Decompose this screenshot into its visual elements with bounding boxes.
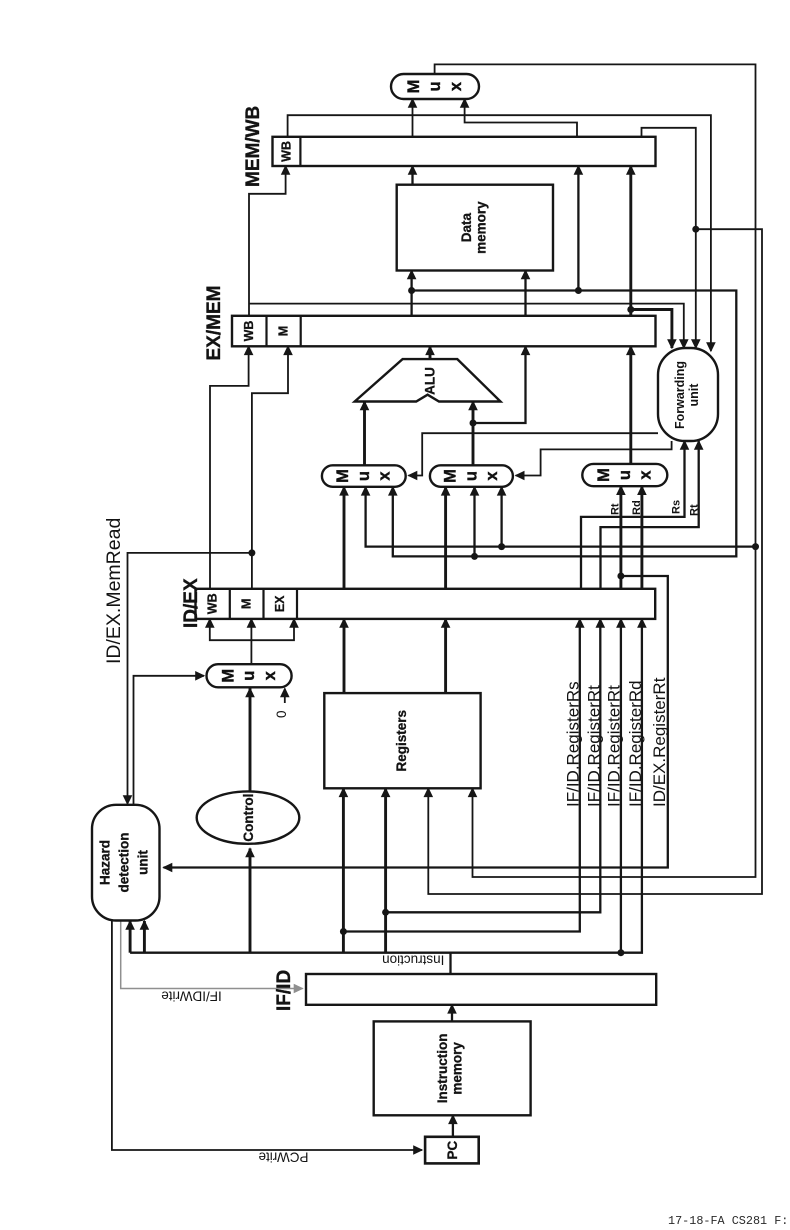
junction EX/MEM RegisterRd xyxy=(627,306,634,313)
wire: Registers read data 1 to ID/EX xyxy=(343,619,346,693)
wire: PC to Instruction memory xyxy=(452,1115,454,1137)
wire: mux A output to ALU input 1 xyxy=(363,402,366,466)
svg-text:0: 0 xyxy=(274,710,289,718)
svg-text:M: M xyxy=(334,469,352,483)
svg-text:17-18-FA CS281 F:: 17-18-FA CS281 F: xyxy=(668,1214,788,1228)
wire: IF/ID.RegisterRt line 2 to ID/EX xyxy=(620,619,622,953)
svg-text:x: x xyxy=(376,471,394,481)
wire: ID/EX.WB control to EX/MEM.WB xyxy=(210,346,249,589)
Data memory block xyxy=(397,185,553,271)
wire: ID/EX.MemRead to hazard detection unit xyxy=(128,553,252,804)
svg-text:Instructionmemory: Instructionmemory xyxy=(435,1034,465,1104)
svg-text:IF/ID.RegisterRt: IF/ID.RegisterRt xyxy=(605,685,624,807)
wire: ID/EX read data 2 to mux B input 1 xyxy=(444,487,447,589)
wire: mux B output to ALU input 2 xyxy=(472,402,475,466)
wire: Data memory read data to MEM/WB xyxy=(411,166,413,185)
wire: writeback value forward line to mux A input 2 xyxy=(366,487,756,547)
wire: IF/ID instruction out to bus xyxy=(449,953,451,974)
Instruction memory block xyxy=(374,1021,531,1115)
pipeline register MEM/WB xyxy=(273,137,656,166)
svg-text:Rs: Rs xyxy=(670,500,682,514)
wire: EX/MEM RegWrite to forwarding unit xyxy=(249,304,684,348)
wire: MEM/WB ALU result to writeback mux input 2 xyxy=(465,99,577,137)
pipeline register EX/MEM xyxy=(232,316,656,347)
wire: ID/EX.RegisterRs to forwarding unit xyxy=(581,441,685,589)
junction mux B input 3 xyxy=(498,543,505,550)
PC block xyxy=(425,1137,479,1164)
wire: ID/EX Rd to mux C input 2 xyxy=(640,486,643,589)
svg-text:u: u xyxy=(240,671,258,681)
wire: writeback mux output loop to Registers write data xyxy=(435,64,756,877)
svg-text:EX/MEM: EX/MEM xyxy=(204,286,225,361)
svg-text:ALU: ALU xyxy=(422,367,437,395)
ALU trapezoid xyxy=(355,359,501,401)
wire: EX/MEM ALU result forward line to mux A input 3 xyxy=(393,291,737,557)
svg-text:x: x xyxy=(261,670,279,680)
wire: writeback value forward branch to mux B input 3 xyxy=(500,487,502,547)
wire: ALU output to EX/MEM xyxy=(429,346,432,359)
svg-text:x: x xyxy=(483,471,501,481)
wire: MEM/WB.WB RegWrite to forwarding unit xyxy=(288,115,711,351)
wire: MEM/WB.RegisterRd to forwarding unit xyxy=(642,128,696,348)
wire: IF/ID.RegisterRs line to ID/EX xyxy=(343,619,579,932)
svg-text:IF/ID: IF/ID xyxy=(274,970,295,1011)
pipeline register ID/EX xyxy=(196,589,656,619)
Control oval xyxy=(197,791,300,843)
svg-text:IF/ID.RegisterRs: IF/ID.RegisterRs xyxy=(564,681,583,807)
wire: ID/EX.M control to EX/MEM.M xyxy=(252,346,288,589)
mux C register destination mux xyxy=(582,464,667,486)
wire: instruction Rs to Registers read register 1 xyxy=(342,788,345,952)
junction ALU result into MEM/WB xyxy=(575,287,582,294)
forwarding unit block xyxy=(658,348,718,441)
wire: ALU result forward branch to mux B input 2 xyxy=(473,487,475,557)
hazard detection unit block xyxy=(92,805,160,921)
wire: ID/EX.RegisterRt to forwarding unit xyxy=(601,441,699,589)
svg-text:Rd: Rd xyxy=(631,500,643,515)
wire: EX/MEM store data to Data memory write data xyxy=(524,271,526,316)
svg-text:u: u xyxy=(355,471,373,481)
svg-text:u: u xyxy=(462,471,480,481)
wire: control mux output to ID/EX WB xyxy=(210,619,252,664)
wire: forwarding unit select ForwardB to mux B xyxy=(516,441,672,476)
svg-text:PC: PC xyxy=(445,1140,460,1159)
junction instruction Rt xyxy=(382,909,389,916)
svg-text:M: M xyxy=(595,468,613,482)
junction instruction bus Rt xyxy=(617,949,624,956)
wire: control mux output to ID/EX M xyxy=(250,619,252,640)
wire: instruction bus xyxy=(130,619,642,953)
svg-text:WB: WB xyxy=(280,141,294,162)
svg-text:ID/EX.MemRead: ID/EX.MemRead xyxy=(103,518,125,664)
wire: EX/MEM.WB to MEM/WB.WB xyxy=(249,166,286,316)
wire: IF/IDWrite from hazard detection unit to IF/ID xyxy=(121,919,303,989)
wire: EX/MEM.RegisterRd up to MEM/WB xyxy=(629,166,632,316)
wire: ID/EX.RegisterRt down to hazard detection unit xyxy=(164,576,668,868)
svg-text:ID/EX: ID/EX xyxy=(181,578,202,628)
pipeline register IF/ID xyxy=(306,974,656,1005)
wire: EX/MEM ALU result to Data memory address xyxy=(410,271,412,316)
wire: MEM/WB.RegisterRd branch to Registers write register xyxy=(428,229,762,894)
svg-text:M: M xyxy=(277,326,291,336)
wire: Control output to control mux xyxy=(249,689,252,792)
junction instruction Rs xyxy=(340,928,347,935)
wire: Registers read data 2 to ID/EX xyxy=(444,619,447,693)
svg-text:PCWrite: PCWrite xyxy=(258,1150,308,1165)
junction mux B output xyxy=(470,420,477,427)
svg-text:u: u xyxy=(616,470,634,480)
svg-text:M: M xyxy=(405,80,423,94)
wire: mux B output branch to EX/MEM store data xyxy=(473,346,526,423)
svg-text:x: x xyxy=(447,81,465,91)
wire: hazard detection stall select to control mux xyxy=(134,676,205,805)
svg-text:WB: WB xyxy=(242,321,256,342)
mux writeback mux xyxy=(391,74,479,99)
svg-text:Rt: Rt xyxy=(689,504,701,516)
junction ID/EX RegisterRt xyxy=(617,573,624,580)
svg-text:Instruction: Instruction xyxy=(382,952,444,967)
svg-text:IF/IDWrite: IF/IDWrite xyxy=(161,989,222,1004)
wire: Instruction memory output to IF/ID xyxy=(451,1005,453,1022)
wire: instruction Rt to Registers read register 2 xyxy=(384,788,387,952)
svg-text:Rt: Rt xyxy=(610,503,622,515)
junction mux B input 2 xyxy=(471,553,478,560)
mux B forward mux B xyxy=(430,465,513,487)
svg-text:Registers: Registers xyxy=(394,710,409,772)
junction ID/EX.MemRead xyxy=(248,549,255,556)
svg-text:WB: WB xyxy=(206,593,220,614)
mux A forward mux A xyxy=(322,465,406,487)
junction writeback value line xyxy=(752,543,759,550)
wire: MEM/WB read data to writeback mux input 1 xyxy=(412,99,414,137)
Registers block xyxy=(324,693,480,788)
svg-text:Control: Control xyxy=(241,794,256,842)
wire: forwarding unit select ForwardA to mux A xyxy=(409,433,659,475)
svg-text:M: M xyxy=(442,469,460,483)
wire: ID/EX Rt to mux C input 1 xyxy=(619,486,622,589)
wire: control mux output to ID/EX EX xyxy=(251,619,294,640)
svg-text:MEM/WB: MEM/WB xyxy=(243,106,264,187)
svg-text:u: u xyxy=(426,81,444,91)
wire: instruction Rs to hazard detection unit xyxy=(129,921,132,953)
wire: zero constant into control mux xyxy=(284,689,286,704)
svg-text:IF/ID.RegisterRd: IF/ID.RegisterRd xyxy=(626,680,645,807)
svg-text:IF/ID.RegisterRt: IF/ID.RegisterRt xyxy=(585,685,604,807)
svg-text:x: x xyxy=(637,470,655,480)
wire: instruction Rt to hazard detection unit xyxy=(143,921,146,953)
wire: ID/EX read data 1 to mux A input 1 xyxy=(343,487,346,589)
junction ALU result at Data memory address xyxy=(408,287,415,294)
wire: instruction bus to Control xyxy=(249,849,252,953)
wire: ALU result branch up into MEM/WB xyxy=(577,166,579,291)
svg-text:M: M xyxy=(219,669,237,683)
wire: IF/ID.RegisterRt line to ID/EX xyxy=(386,619,601,912)
wire: EX/MEM.RegisterRd branch to forwarding unit xyxy=(631,310,672,349)
wire: PCWrite from hazard detection unit to PC xyxy=(112,919,422,1150)
junction MEM/WB RegisterRd xyxy=(692,226,699,233)
svg-text:ID/EX.RegisterRt: ID/EX.RegisterRt xyxy=(650,677,669,807)
mux Z control stall mux xyxy=(207,664,292,687)
svg-text:EX: EX xyxy=(273,595,287,612)
wire: mux C output to EX/MEM xyxy=(629,346,632,464)
svg-text:M: M xyxy=(240,599,254,609)
